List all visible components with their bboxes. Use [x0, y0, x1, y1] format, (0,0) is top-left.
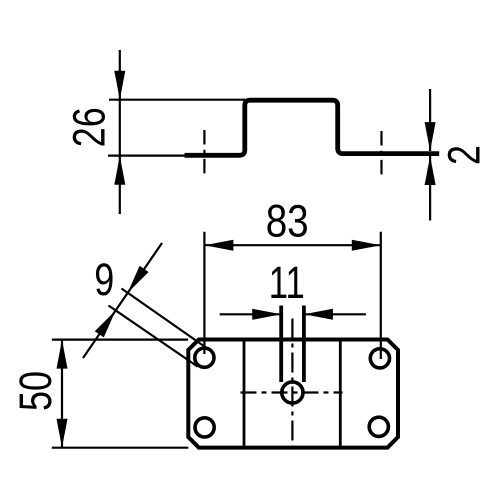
- bend line right: [339, 342, 342, 446]
- arrow 50 bottom: [57, 419, 68, 448]
- dimension line 2 upper: [429, 89, 431, 151]
- svg-text:26: 26: [64, 107, 115, 147]
- hole top-right: [370, 349, 389, 368]
- dimension line 50: [61, 340, 63, 448]
- svg-text:2: 2: [439, 145, 490, 165]
- svg-text:11: 11: [269, 257, 305, 308]
- arrow 83 right: [352, 240, 381, 251]
- arrow 83 left: [204, 240, 233, 251]
- horizontal centerline: [241, 391, 343, 393]
- extension line 50 top: [52, 339, 188, 341]
- plate outline: [188, 340, 398, 448]
- center hole: [282, 382, 303, 403]
- extension line 83 left: [203, 232, 205, 354]
- arrow 2 top: [425, 122, 436, 151]
- hole bottom-left: [195, 418, 214, 437]
- dimension line 2 lower: [429, 156, 431, 221]
- arrow 11 right: [304, 309, 333, 320]
- centerline right flange: [380, 131, 382, 176]
- tangent extension line upper (dia 9): [122, 289, 210, 351]
- arrow 11 left: [252, 309, 281, 320]
- arrow 26 top: [114, 71, 125, 100]
- tangent extension line lower (dia 9): [109, 306, 198, 367]
- svg-text:9: 9: [94, 254, 114, 305]
- bend line left: [243, 342, 246, 446]
- arrow 9 upper: [128, 266, 149, 293]
- dimension line 9: [83, 243, 162, 358]
- dimension line 26: [119, 50, 121, 214]
- arrow 2 bottom: [425, 156, 436, 185]
- dimension line 11 left part: [220, 313, 282, 315]
- extension line 83 right: [380, 232, 382, 359]
- arrow 50 top: [57, 340, 68, 369]
- slot right edge: [302, 306, 306, 383]
- hole top-left: [195, 348, 214, 367]
- slot left edge: [279, 306, 283, 383]
- centerline left flange: [203, 130, 205, 178]
- arrow 9 lower: [95, 310, 116, 337]
- dimension line 83: [204, 244, 380, 246]
- dimension line 11 right part: [304, 313, 366, 315]
- profile sheet (thick bent line): [185, 100, 440, 155]
- svg-text:83: 83: [266, 195, 309, 246]
- extension line top (26): [109, 99, 245, 101]
- extension line bottom (26): [108, 155, 186, 157]
- arrow 26 bottom: [114, 156, 125, 185]
- svg-text:50: 50: [10, 371, 61, 411]
- hole bottom-right: [369, 417, 388, 436]
- vertical centerline: [291, 319, 293, 447]
- extension line 50 bottom: [52, 447, 189, 449]
